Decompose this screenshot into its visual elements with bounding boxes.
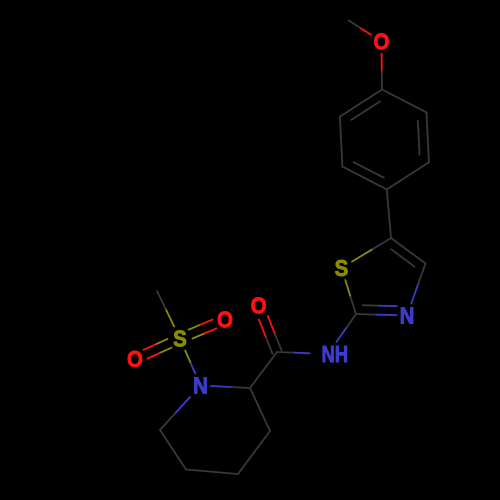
thiazole double bond C2=N3 [356, 313, 376, 316]
svg-text:NH: NH [321, 341, 348, 367]
thiazole bond N3-C4 [411, 284, 418, 304]
piperidine bond C3-C2 [250, 388, 270, 431]
svg-text:N: N [193, 372, 208, 398]
bond O-C1 aryl ether [381, 54, 383, 72]
svg-text:O: O [127, 346, 143, 372]
piperidine bond N1-C6 [175, 397, 190, 414]
svg-text:O: O [251, 293, 267, 319]
bond S-CH3 methanesulfonyl [166, 309, 175, 327]
benzene bond C1-C2 [382, 90, 427, 113]
sulfonyl double bond S=O (lower) [156, 339, 168, 345]
svg-text:S: S [173, 325, 187, 351]
amide bond NH-C(=O) [293, 352, 309, 355]
svg-text:N: N [400, 302, 415, 328]
thiazole bond C5-S1 [372, 238, 392, 250]
svg-text:S: S [335, 255, 349, 281]
svg-text:O: O [374, 28, 390, 54]
benzene double bond C2=C3 [427, 112, 429, 162]
benzene bond C3-C4 [387, 162, 429, 189]
piperidine bond C6-C5 [160, 430, 186, 470]
bond aryl-thiazole [387, 189, 391, 238]
piperidine bond C4-C3 [238, 431, 270, 474]
benzene bond C5-C6 [340, 117, 343, 167]
benzene double bond C6=C1 [340, 90, 382, 117]
piperidine bond C2-N1 [231, 387, 251, 388]
svg-text:O: O [217, 306, 233, 332]
piperidine bond C5-C4 [186, 470, 238, 475]
thiazole double bond C4=C5 [391, 238, 426, 264]
thiazole bond S1-C2 [345, 280, 350, 297]
bond C(=O)-piperidine C2 [250, 352, 277, 388]
sulfonamide bond N-S [190, 362, 195, 374]
bond O-CH3 methoxy [360, 28, 371, 35]
carbonyl double bond C=O [275, 333, 282, 350]
bond thiazole-NH [346, 314, 356, 328]
benzene double bond C4=C5 [342, 167, 386, 190]
sulfonyl double bond S=O (upper) [192, 334, 204, 339]
